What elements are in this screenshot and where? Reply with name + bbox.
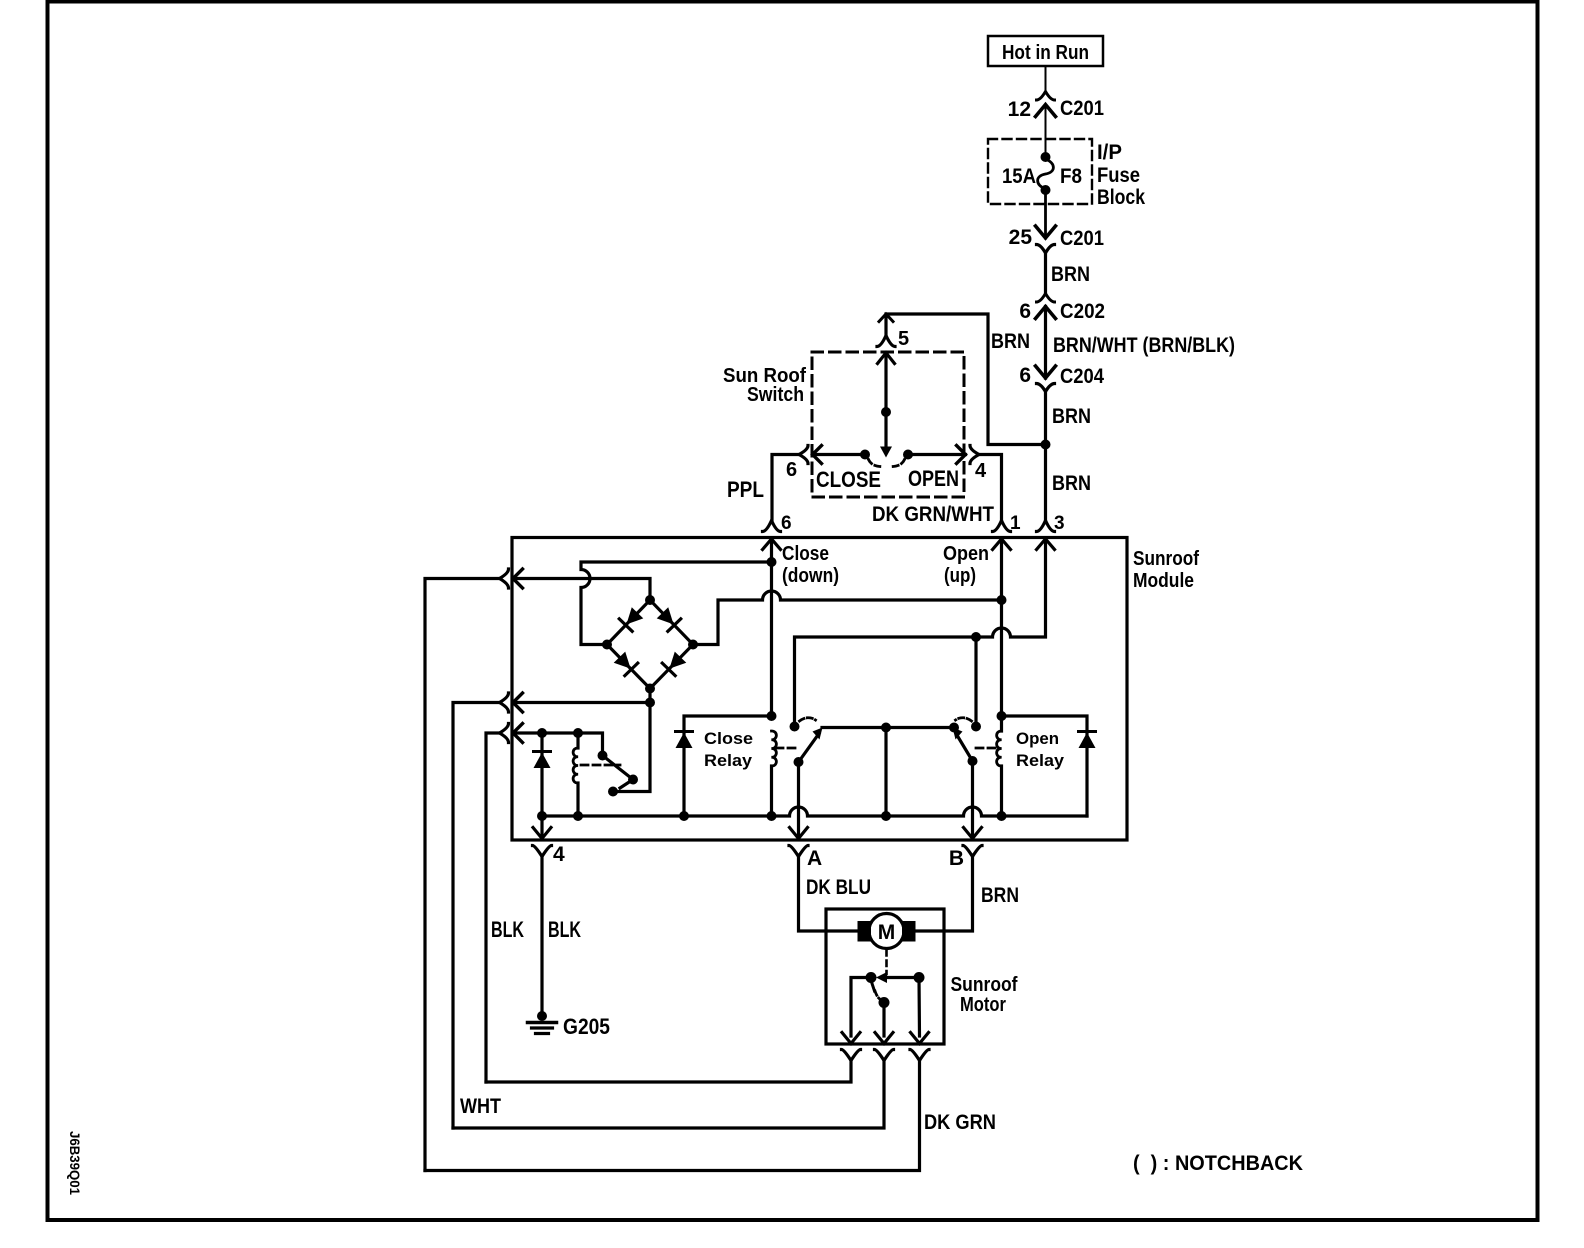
motor pin connectors (842, 1050, 930, 1061)
wire motor right pin DK GRN (425, 1061, 996, 1171)
wire (1045, 105, 1047, 159)
bridge diode bottom-right (662, 651, 687, 676)
wire switch common (884, 353, 887, 448)
open relay label (1016, 729, 1065, 770)
svg-text:M: M (878, 921, 896, 944)
svg-text:B: B (949, 847, 964, 870)
wire pin 4 to ground BLK (491, 857, 581, 1017)
svg-text:Hot in Run: Hot in Run (1002, 42, 1089, 64)
connector module pin 1 (993, 513, 1022, 534)
node junction BRN branch (1041, 440, 1051, 450)
wire motor pin left (851, 978, 871, 1037)
connector module left 3 (500, 724, 523, 743)
svg-text:BRN: BRN (1051, 263, 1090, 286)
svg-text:Sunroof: Sunroof (951, 974, 1018, 996)
node aux diode tap (537, 728, 547, 738)
fuse F8 15A (1002, 152, 1082, 195)
svg-text:DK GRN/WHT: DK GRN/WHT (872, 503, 994, 526)
svg-text:C201: C201 (1060, 227, 1104, 250)
svg-text:6: 6 (786, 459, 797, 481)
pin 4 arrow and connector (533, 816, 566, 866)
wire open coil top to diode (1002, 716, 1088, 816)
svg-text:Sunroof: Sunroof (1133, 548, 1199, 570)
svg-text:Switch: Switch (747, 384, 804, 406)
motor pin arrows (842, 1033, 929, 1044)
svg-text:Open: Open (943, 543, 989, 565)
node bridge bottom junction (645, 698, 655, 708)
wire BRN to node junction (1046, 392, 1092, 520)
svg-text:5: 5 (898, 328, 909, 350)
connector module left 2 (500, 693, 523, 712)
svg-text:C204: C204 (1060, 365, 1104, 388)
svg-text:BLK: BLK (548, 917, 581, 942)
svg-text:BRN: BRN (981, 884, 1019, 907)
fuse block dashed box I/P Fuse Block (988, 139, 1145, 209)
switch wiper arrowhead (880, 447, 892, 458)
close relay contact (790, 718, 823, 767)
wire close line (pin 6 down) (770, 539, 773, 716)
bridge diode bottom-left (613, 651, 638, 676)
close relay label (704, 729, 753, 770)
connector pin 5 of sunroof switch (877, 328, 909, 350)
wire switch close contact to module pin 6, PPL (727, 455, 865, 521)
close relay coil (772, 731, 777, 816)
sunroof motor box (826, 909, 1018, 1044)
wire (1044, 190, 1047, 238)
node contact bus middle (881, 723, 891, 733)
aux relay contact (598, 751, 639, 797)
svg-text:(up): (up) (944, 565, 976, 587)
svg-text:DK BLU: DK BLU (806, 876, 871, 899)
bridge diode top-right (656, 607, 681, 632)
svg-text:CLOSE: CLOSE (816, 467, 881, 492)
svg-text:Close: Close (704, 729, 753, 748)
wire pin A to motor DK BLU (799, 857, 872, 932)
wire motor middle pin (453, 1061, 884, 1129)
aux relay diode (534, 733, 551, 816)
svg-text:BRN/WHT (BRN/BLK): BRN/WHT (BRN/BLK) (1053, 334, 1235, 357)
pin 1 arrow Open (up) (943, 539, 1011, 587)
svg-text:3: 3 (1054, 513, 1065, 534)
pin A arrow and connector (789, 762, 822, 870)
wire BRN branch to switch pin 5 (886, 314, 1046, 445)
switch rocker dashed arcs (869, 460, 905, 467)
wire bridge right to open line (693, 591, 1002, 645)
wire BRN (1046, 253, 1091, 294)
svg-text:BRN: BRN (1052, 405, 1091, 428)
wire middle drop to rail (884, 728, 887, 817)
connector switch pin 4 (right) (957, 446, 988, 483)
node Hot in Run (988, 36, 1103, 66)
close relay dashed link (776, 747, 799, 750)
pin 3 arrow (1037, 539, 1055, 550)
svg-text:6: 6 (781, 513, 792, 534)
diode bridge (602, 595, 698, 694)
svg-text:(down): (down) (782, 565, 839, 587)
svg-text:PPL: PPL (727, 477, 764, 502)
motor limit switch dashed stem (885, 950, 888, 974)
sunroof module box (512, 538, 1199, 841)
wire arrow at switch feed corner (879, 314, 893, 322)
svg-text:4: 4 (975, 460, 987, 482)
svg-text:BLK: BLK (491, 917, 524, 942)
node aux coil tap (573, 728, 583, 738)
wire motor left pin WHT (460, 1061, 851, 1119)
svg-text:Relay: Relay (704, 751, 753, 770)
connector module pin 6 (763, 513, 792, 534)
wire down to switch pin 5 (884, 315, 887, 334)
switch common feed arrow (pin 5 inside) (878, 353, 895, 364)
svg-text:J6B39Q01: J6B39Q01 (67, 1131, 83, 1195)
svg-text:6: 6 (1019, 364, 1031, 387)
svg-text:Relay: Relay (1016, 751, 1065, 770)
wire (1045, 66, 1047, 92)
open relay dashed link (976, 747, 999, 750)
svg-text:6: 6 (1019, 300, 1031, 323)
node close line tap (767, 557, 777, 567)
open relay diode (1079, 732, 1096, 749)
svg-text:Close: Close (782, 543, 829, 565)
node open line junction (997, 595, 1007, 605)
sunroof switch dashed box (723, 352, 964, 497)
pin 6 arrow Close (down) (763, 539, 840, 587)
connector C201 pin 12 (1008, 92, 1105, 122)
svg-text:C202: C202 (1060, 300, 1105, 323)
aux relay coil (573, 733, 578, 816)
wire tap down to open relay contact (974, 637, 977, 727)
svg-text:15A: 15A (1002, 165, 1036, 188)
svg-text:OPEN: OPEN (908, 466, 959, 491)
connector C201 pin 25 (1009, 226, 1105, 253)
wire close coil top to diode (684, 716, 772, 816)
svg-text:Fuse: Fuse (1097, 164, 1140, 187)
wire second connector to bridge bottom (453, 703, 500, 1129)
motor M (858, 914, 916, 949)
svg-text:25: 25 (1009, 226, 1033, 249)
wire switch open contact to module pin 1, DK GRN/WHT (872, 455, 1002, 527)
svg-text:Module: Module (1133, 570, 1194, 592)
svg-text:G205: G205 (563, 1014, 610, 1039)
svg-text:A: A (807, 847, 822, 870)
connector switch pin 6 (left) (786, 446, 822, 482)
aux relay dashed link (581, 764, 620, 767)
svg-text:Open: Open (1016, 729, 1059, 748)
switch contact OPEN (903, 450, 959, 492)
open relay coil (997, 731, 1002, 816)
node rail junctions (537, 811, 1007, 821)
wire open line (pin 1 down) (1000, 539, 1003, 731)
svg-text:WHT: WHT (460, 1095, 501, 1118)
ground G205 (528, 1011, 611, 1039)
node close coil top (767, 711, 777, 721)
wire third connector line (486, 733, 500, 1082)
wire connector feed to bridge top (425, 579, 500, 1171)
svg-text:Motor: Motor (960, 994, 1006, 1016)
svg-text:I/P: I/P (1097, 141, 1122, 164)
pin B arrow and connector (949, 761, 982, 870)
open relay contact (949, 718, 981, 766)
close relay diode (676, 732, 693, 749)
wire pin 3 line to relay contacts (795, 539, 1046, 727)
svg-text:( ) : NOTCHBACK: ( ) : NOTCHBACK (1133, 1152, 1303, 1175)
svg-text:C201: C201 (1060, 97, 1104, 120)
switch contact CLOSE (816, 450, 881, 493)
svg-text:BRN: BRN (991, 330, 1030, 353)
wire ground rail (542, 807, 1087, 816)
svg-text:Block: Block (1097, 186, 1145, 209)
svg-text:DK GRN: DK GRN (924, 1111, 996, 1134)
connector C204 pin 6 (1019, 364, 1104, 392)
svg-text:12: 12 (1008, 98, 1031, 121)
svg-text:BRN: BRN (1052, 472, 1091, 495)
node switch common (881, 407, 891, 417)
connector module left 1 (500, 569, 523, 588)
wire relay contact bus (822, 726, 954, 729)
svg-text:1: 1 (1010, 513, 1021, 534)
connector C202 pin 6 (1019, 294, 1105, 324)
bridge diode top-left (619, 607, 644, 632)
svg-text:4: 4 (553, 843, 565, 866)
wire motor pin right (917, 978, 921, 1037)
connector module pin 3 (1037, 513, 1065, 534)
motor limit switch (866, 972, 925, 1008)
wire pin B to motor BRN (916, 857, 1020, 932)
wire BRN/WHT (BRN/BLK) (1046, 307, 1236, 379)
svg-text:F8: F8 (1060, 165, 1082, 188)
wire motor pin middle (882, 1003, 885, 1037)
wire close tap to bridge left (581, 562, 772, 645)
wire bridge bottom down to aux relay contact (613, 689, 650, 792)
node open coil top (997, 711, 1007, 721)
node tap on pin3 line (971, 632, 981, 642)
